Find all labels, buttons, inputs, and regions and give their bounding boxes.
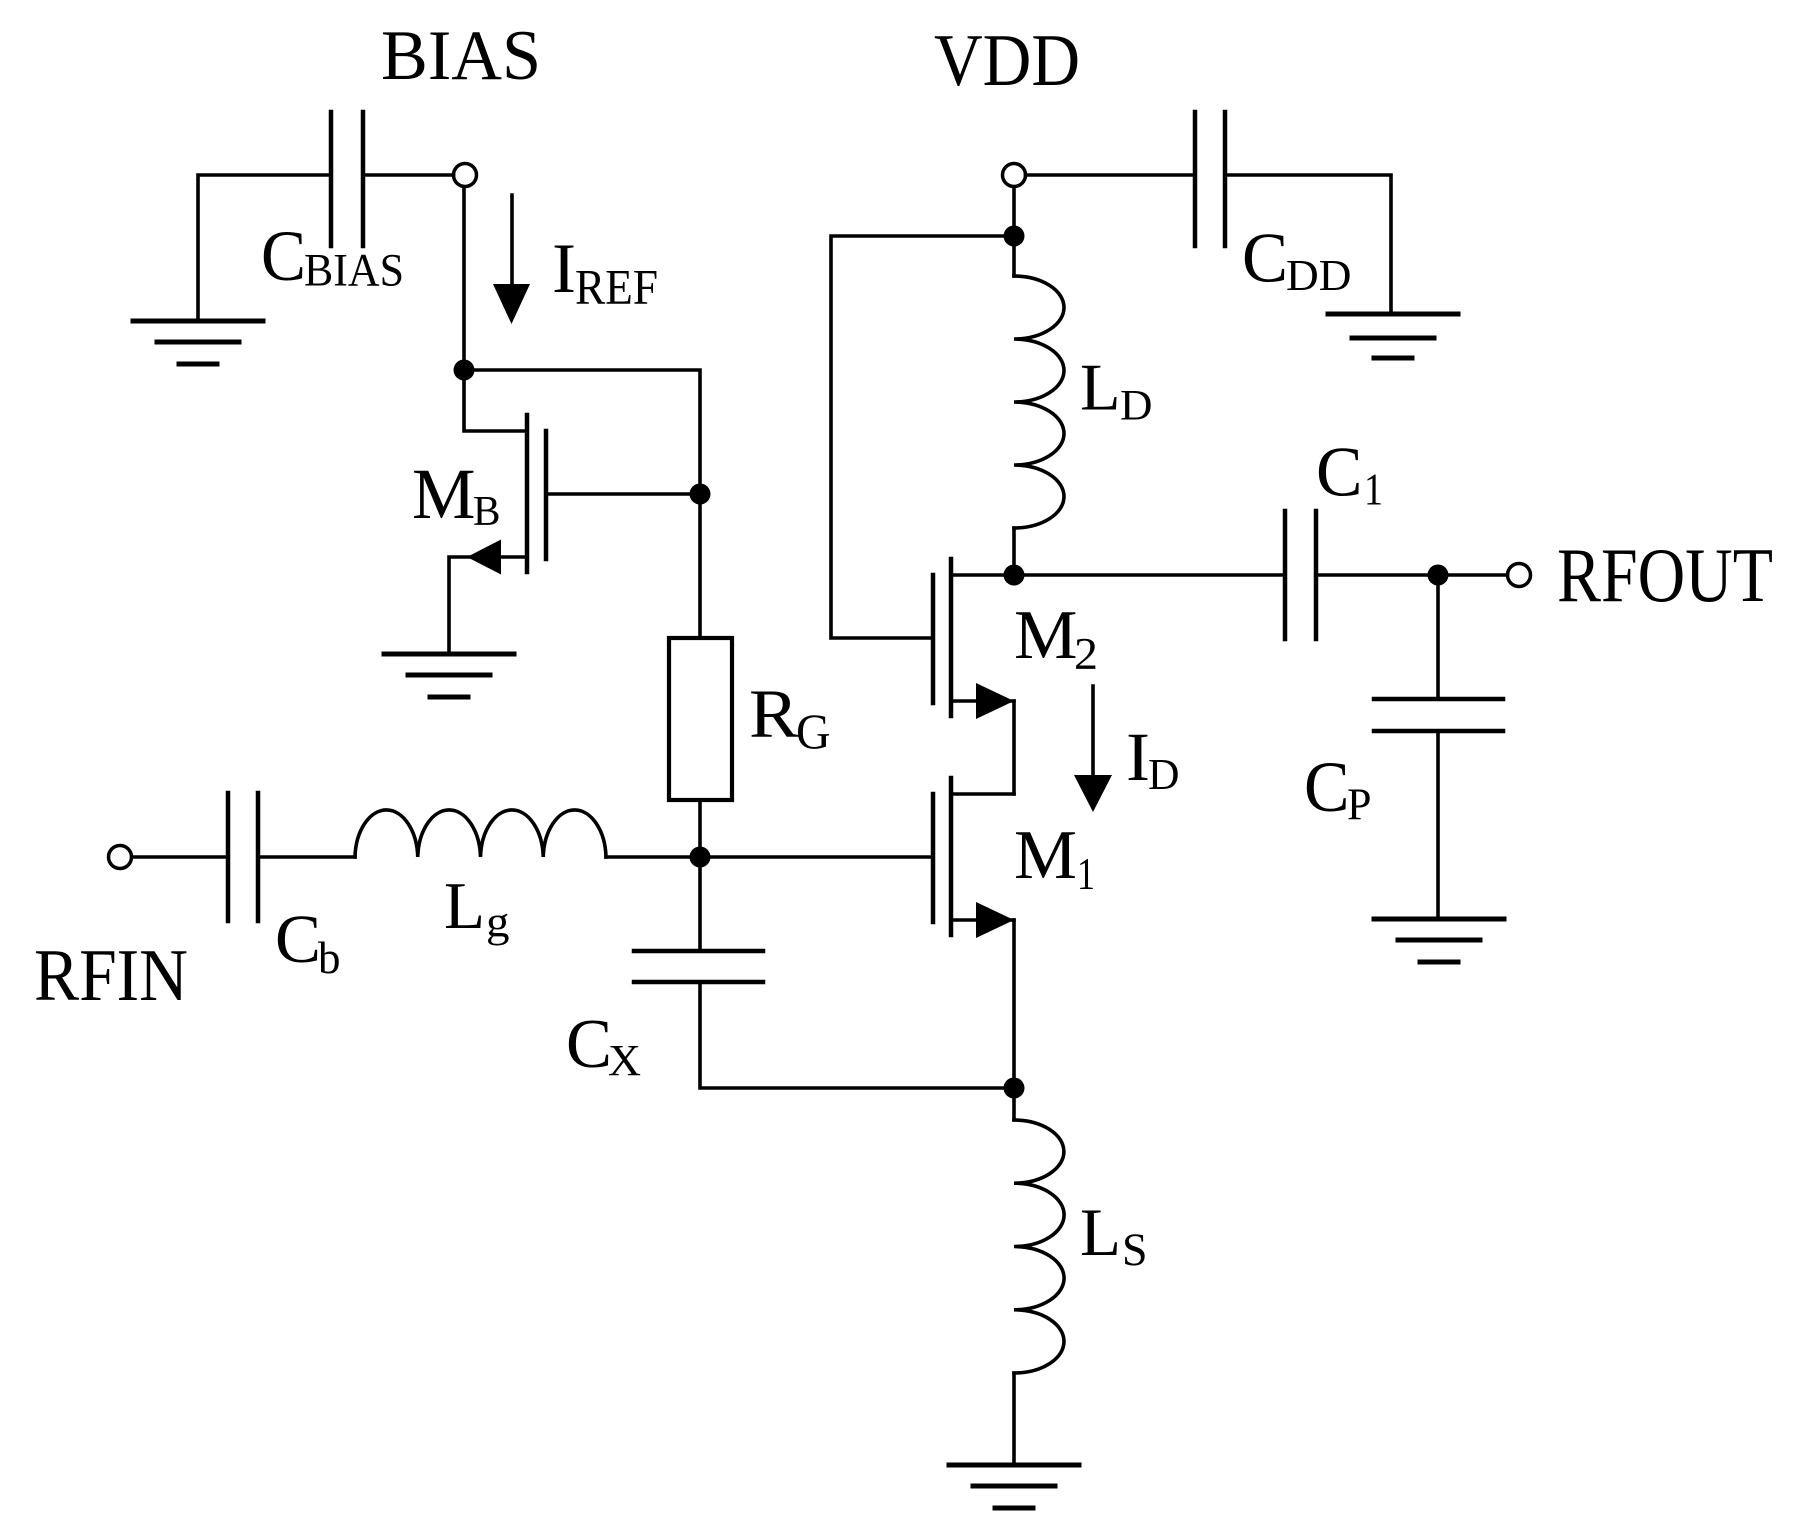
node BIAS label xyxy=(381,17,541,95)
svg-text:M: M xyxy=(1014,597,1078,674)
ground (C_BIAS) xyxy=(133,321,263,364)
M2 drain wire xyxy=(951,573,1014,577)
wire VDD terminal down to VDD node xyxy=(1012,187,1016,236)
wire R_G bottom to gate node xyxy=(698,800,702,857)
wire BIAS terminal left to C_BIAS xyxy=(363,173,454,177)
wire bias node right and down to R_G top xyxy=(464,370,700,638)
transistor M2 xyxy=(933,559,951,716)
svg-text:C: C xyxy=(275,901,321,977)
svg-text:X: X xyxy=(608,1036,641,1085)
inductor L_g xyxy=(355,810,606,857)
capacitor C_b xyxy=(228,793,258,921)
node RFOUT junction xyxy=(1428,565,1449,586)
M_B source wire with arrow xyxy=(449,540,527,655)
M1 drain wire xyxy=(951,792,1014,796)
svg-text:L: L xyxy=(1080,351,1121,425)
current arrow I_REF xyxy=(493,195,530,324)
label M1 xyxy=(1014,817,1095,899)
svg-text:VDD: VDD xyxy=(934,20,1080,102)
transistor M_B xyxy=(527,415,546,572)
node drain junction xyxy=(1004,565,1025,586)
svg-text:M: M xyxy=(412,454,476,534)
BIAS terminal xyxy=(454,164,477,187)
svg-text:b: b xyxy=(318,933,341,983)
RFOUT terminal xyxy=(1508,564,1531,587)
label C_1 xyxy=(1316,434,1383,515)
label L_g xyxy=(444,869,510,946)
label RFOUT xyxy=(1557,532,1773,618)
svg-text:D: D xyxy=(1148,750,1180,799)
label C_X xyxy=(566,1006,641,1085)
M_B gate wire xyxy=(546,492,700,496)
inductor L_S xyxy=(1014,1120,1064,1373)
ground (C_P) xyxy=(1374,919,1504,962)
ground (C_DD) xyxy=(1328,314,1458,358)
node VDD junction xyxy=(1004,226,1025,247)
svg-text:1: 1 xyxy=(1364,465,1383,515)
svg-text:REF: REF xyxy=(575,259,658,315)
transistor M1 xyxy=(933,778,951,935)
svg-text:DD: DD xyxy=(1286,251,1352,300)
M2 source wire with arrow xyxy=(951,683,1014,719)
wire C_1 to RFOUT xyxy=(1316,573,1508,577)
wire C_X bottom to source node xyxy=(700,982,1014,1088)
label L_S xyxy=(1080,1194,1148,1276)
label L_D xyxy=(1080,351,1153,430)
label C_b xyxy=(275,901,341,983)
wire VDD node left down to M2 gate xyxy=(831,236,1014,638)
svg-text:BIAS: BIAS xyxy=(381,17,541,95)
wire RFOUT node down to C_P xyxy=(1436,575,1440,699)
node source junction xyxy=(1004,1078,1025,1099)
node VDD label xyxy=(934,20,1080,102)
svg-text:I: I xyxy=(1126,719,1150,795)
wire L_S to ground xyxy=(1012,1373,1016,1465)
wire M2 source to M1 drain xyxy=(1012,701,1016,794)
svg-text:L: L xyxy=(444,869,485,943)
svg-text:C: C xyxy=(1242,220,1288,298)
node gate junction xyxy=(690,847,711,868)
node bias junction xyxy=(454,360,475,381)
svg-text:G: G xyxy=(796,703,831,759)
inductor L_D xyxy=(1014,276,1064,528)
current arrow I_D xyxy=(1074,686,1112,812)
svg-text:B: B xyxy=(473,489,501,535)
capacitor C_P xyxy=(1374,699,1503,731)
capacitor C_BIAS xyxy=(331,112,363,246)
svg-text:1: 1 xyxy=(1077,849,1095,899)
wire C_P to ground xyxy=(1436,731,1440,919)
svg-text:M: M xyxy=(1014,817,1077,894)
label I_REF xyxy=(552,230,658,315)
wire M1 source down to L_S xyxy=(1012,920,1016,1120)
node M_B gate / R_G top junction xyxy=(690,484,711,505)
capacitor C_DD xyxy=(1195,112,1225,246)
svg-text:I: I xyxy=(552,230,576,308)
svg-text:D: D xyxy=(1120,382,1153,430)
resistor R_G xyxy=(669,638,732,800)
wire BIAS terminal down to bias node xyxy=(462,187,466,370)
svg-text:RFIN: RFIN xyxy=(34,935,188,1017)
label C_BIAS xyxy=(261,216,404,297)
label R_G xyxy=(749,676,831,759)
svg-text:S: S xyxy=(1122,1224,1148,1276)
wire C_BIAS to ground xyxy=(198,175,331,321)
wire gate node down to C_X xyxy=(698,857,702,951)
svg-text:C: C xyxy=(566,1006,612,1083)
svg-text:L: L xyxy=(1080,1194,1121,1270)
ground (L_S) xyxy=(949,1465,1079,1508)
svg-text:C: C xyxy=(1304,747,1350,827)
svg-text:2: 2 xyxy=(1074,629,1098,679)
wire RFIN to C_b xyxy=(132,855,228,859)
svg-text:C: C xyxy=(261,216,306,296)
wire L_D bottom to drain node xyxy=(1012,528,1016,575)
wire VDD node to L_D top xyxy=(1012,236,1016,276)
wire gate line L_g to M1 gate xyxy=(606,855,933,859)
svg-text:BIAS: BIAS xyxy=(304,245,404,297)
wire bias node down to M_B drain xyxy=(464,370,527,431)
svg-text:g: g xyxy=(486,899,510,946)
capacitor C_X xyxy=(634,951,763,982)
svg-text:C: C xyxy=(1316,434,1363,512)
label I_D xyxy=(1126,719,1180,799)
svg-text:RFOUT: RFOUT xyxy=(1557,532,1773,618)
wire C_DD right down to ground xyxy=(1225,175,1391,314)
VDD terminal xyxy=(1003,164,1026,187)
capacitor C_1 xyxy=(1285,511,1316,639)
svg-text:R: R xyxy=(749,676,799,752)
wire VDD terminal right to C_DD xyxy=(1026,173,1196,177)
label M_B xyxy=(412,454,501,535)
label C_DD xyxy=(1242,220,1352,301)
RFIN terminal xyxy=(109,846,132,869)
wire C_b to L_g xyxy=(258,855,355,859)
label M2 xyxy=(1014,597,1098,679)
label RFIN xyxy=(34,935,188,1017)
wire drain node to C_1 xyxy=(1014,573,1285,577)
M1 source wire with arrow xyxy=(951,902,1014,938)
svg-text:P: P xyxy=(1347,779,1372,830)
label C_P xyxy=(1304,747,1372,830)
ground (M_B) xyxy=(384,654,514,697)
